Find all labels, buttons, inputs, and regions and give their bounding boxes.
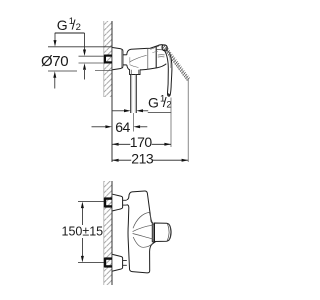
- faucet body outline (side view): [127, 45, 167, 70]
- outlet collar (side view): [130, 70, 140, 75]
- concealed union box (side view): [105, 55, 112, 64]
- cartridge cap lines (side view): [148, 45, 163, 70]
- svg-text:213: 213: [131, 151, 154, 167]
- bottom neck: [123, 261, 127, 266]
- 64 dimension: [92, 113, 148, 135]
- body sculpt lines (side view): [130, 55, 147, 67]
- top escutcheon (front view): [112, 194, 122, 211]
- 150 +/- 15 dimension: [62, 202, 105, 263]
- wall hatching (side view): [104, 21, 113, 97]
- svg-text:G: G: [148, 95, 159, 111]
- ticked indicator band (shower hose): [163, 46, 189, 80]
- svg-text:G: G: [57, 17, 68, 33]
- inlet pipe stub behind wall: [79, 56, 105, 63]
- neck between escutcheon and body: [123, 55, 127, 65]
- bottom escutcheon (front view): [112, 254, 122, 271]
- handle dome (side view): [158, 55, 171, 65]
- 170 dimension: [112, 98, 171, 150]
- top union box (front view): [105, 198, 112, 208]
- dia 70 bottom extension line: [48, 70, 77, 72]
- svg-text:170: 170: [130, 134, 153, 150]
- lever pivot boss (side view): [162, 45, 167, 51]
- label G 1/2 (outlet, lower): [148, 93, 172, 112]
- svg-text:150±15: 150±15: [62, 224, 104, 238]
- dia 70 bottom extension near wall: [95, 70, 112, 72]
- lever blade (side view): [165, 50, 172, 96]
- 213 dimension: [112, 79, 188, 167]
- dia70 up arrow (left): [53, 71, 56, 88]
- G1/2 left arrow (down): [54, 33, 57, 47]
- pipe bottom up arrow (right): [83, 63, 86, 79]
- mixer body (front view): [127, 191, 155, 273]
- escutcheon (side view): [112, 48, 123, 70]
- G1/2 right arrow (down to pipe): [83, 33, 86, 56]
- wall hatching (front view): [104, 181, 113, 285]
- outlet pipe (side view): [131, 75, 137, 114]
- svg-text:Ø70: Ø70: [41, 53, 68, 70]
- knob handle (front view): [152, 223, 171, 242]
- wall face line (front view): [111, 181, 113, 285]
- body fan sculpt lines (front view): [133, 212, 153, 247]
- svg-text:64: 64: [115, 119, 130, 135]
- label G 1/2 (top left): [55, 16, 85, 33]
- bottom union box (front view): [105, 258, 112, 268]
- svg-text:2: 2: [76, 22, 81, 33]
- dia 70 top extension line: [48, 46, 112, 48]
- top neck: [123, 200, 127, 205]
- G1/2 outlet dimension arrows: [113, 109, 149, 112]
- wall face line (side view) extended as dimension extension: [111, 21, 113, 162]
